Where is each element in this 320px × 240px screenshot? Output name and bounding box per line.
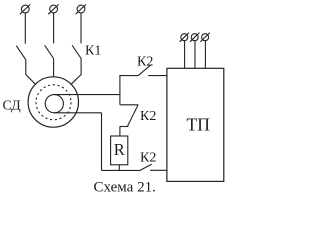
svg-text:К2: К2 [137,54,153,69]
svg-text:СД: СД [3,99,22,114]
motor SD dashed circle [36,85,71,120]
terminal X4 (right 1, slashed circle) [180,33,189,42]
svg-text:К1: К1 [85,43,101,58]
wire rotor lower [54,112,101,114]
contact K2 mid arm [127,105,138,127]
svg-text:R: R [114,140,125,159]
wire drop to mid contact [119,95,121,105]
svg-text:К2: К2 [140,150,156,165]
wire phase 2 to motor [53,59,55,78]
wire rotor upper [54,94,120,96]
svg-text:ТП: ТП [187,115,211,135]
thyristor converter TP box [167,68,224,181]
wire bottom right segment [150,169,167,171]
resistor R body [111,136,128,165]
wire phase 3 to motor [71,59,81,85]
terminal X6 (right 3, slashed circle) [200,33,209,42]
contact K2 mid lower stub [120,126,129,128]
wire TP input 2 [194,41,196,69]
wire bottom left segment [102,169,139,171]
svg-text:Схема 21.: Схема 21. [94,180,156,196]
wire phase 3 upper [80,13,82,44]
svg-text:К2: К2 [140,109,156,124]
contact K2 mid fixed stub [120,104,138,106]
wire resistor bottom [118,165,120,171]
wire rotor lower drop [101,113,103,171]
wire phase 2 upper [53,13,55,44]
contact K2 bottom arm [139,164,152,171]
terminal X2 (left phase 2, slashed circle) [48,4,58,14]
wire K2 top right segment [148,75,167,77]
contact K1 pole 1 [16,46,26,60]
wire K2 top left segment [119,75,138,77]
terminal X1 (left phase 1, slashed circle) [20,4,30,14]
wire TP input 1 [184,41,186,69]
motor SD stator circle [28,77,78,127]
contact K1 pole 3 [72,45,81,58]
terminal X3 (left phase 3, slashed circle) [76,4,86,14]
wire to resistor [119,127,121,137]
terminal X5 (right 2, slashed circle) [190,33,199,42]
wire riser to K2 top [119,76,121,96]
contact K2 top arm [138,65,150,75]
contact K1 pole 2 [45,45,54,58]
wire phase 1 to motor [26,60,36,84]
wire phase 1 upper [24,13,26,44]
motor SD rotor circle [45,95,63,113]
wire TP input 3 [204,41,206,69]
